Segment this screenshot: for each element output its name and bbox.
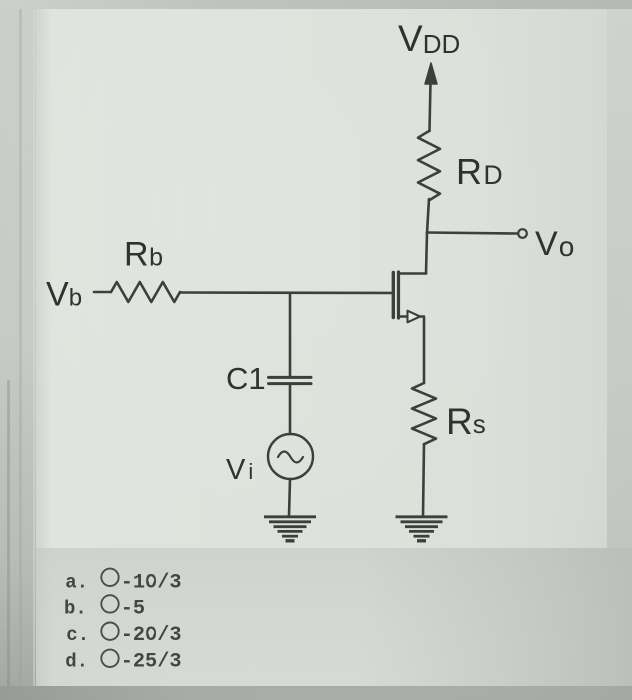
wire source to Rs [420,317,424,384]
transistor Q1 source lead [399,315,408,318]
wire Rs to ground [423,444,424,516]
transistor Q1 gate bar [392,273,395,318]
transistor Q1 drain lead [399,272,426,275]
svg-text:Vi: Vi [226,454,253,486]
wire C1 to Vi [289,385,292,434]
capacitor C1 bottom plate [269,382,312,385]
Vo terminal circle [518,229,527,238]
answer b radio [101,595,118,612]
resistor Rs [412,383,436,444]
capacitor C1 top plate [269,376,312,379]
wire gate [180,291,393,294]
ground right [396,517,448,541]
transistor Q1 channel bar [397,272,400,318]
ground left [264,517,316,541]
wire node to Vo [427,233,518,234]
svg-text:Vo: Vo [535,225,574,263]
svg-text:d.: d. [65,650,88,672]
svg-text:c.: c. [66,624,89,646]
wire C1 branch [289,293,292,376]
svg-text:C1: C1 [226,361,266,396]
source Vi sine [278,452,303,463]
svg-text:a.: a. [65,571,88,593]
resistor RD [418,131,440,200]
Vb lead [94,291,111,294]
wire Vi to ground [289,479,290,516]
resistor Rb [111,282,180,302]
source Vi circle [268,434,313,479]
answer c radio [101,623,118,640]
transistor Q1 source arrow [408,311,421,323]
svg-text:-5: -5 [121,598,145,621]
answer d radio [101,650,118,667]
wire RD bottom to drain node [427,199,429,233]
wire node down to drain [426,233,427,274]
svg-text:b.: b. [64,598,87,620]
answer a radio [101,569,118,586]
VDD arrow [430,82,431,131]
svg-text:-25/3: -25/3 [121,650,182,673]
